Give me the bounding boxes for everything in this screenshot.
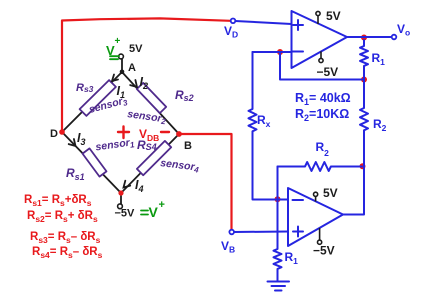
svg-text:+: + <box>159 199 165 211</box>
svg-text:Vo: Vo <box>397 22 410 38</box>
svg-text:I4: I4 <box>135 178 144 194</box>
svg-text:Rs4= Rs– δRs: Rs4= Rs– δRs <box>32 246 103 260</box>
svg-text:R1= 40kΩ: R1= 40kΩ <box>295 91 351 107</box>
svg-text:Rs2= Rs+ δRs: Rs2= Rs+ δRs <box>27 210 98 224</box>
svg-text:sensor4: sensor4 <box>160 157 201 175</box>
svg-text:V: V <box>149 204 159 220</box>
svg-text:A: A <box>128 62 136 74</box>
svg-text:D: D <box>50 128 58 140</box>
svg-text:−5V: −5V <box>313 244 335 258</box>
svg-text:VD: VD <box>224 24 238 40</box>
svg-text:B: B <box>184 140 192 152</box>
svg-text:Rs3: Rs3 <box>76 82 94 94</box>
svg-text:5V: 5V <box>326 9 341 23</box>
svg-text:−5V: −5V <box>317 65 339 79</box>
svg-text:I2: I2 <box>140 75 149 91</box>
svg-text:R1: R1 <box>285 250 299 266</box>
svg-text:R2: R2 <box>316 140 330 158</box>
svg-text:+: + <box>115 36 121 47</box>
svg-text:Rx: Rx <box>257 113 271 129</box>
svg-text:Rs1= Rs+δRs: Rs1= Rs+δRs <box>24 194 92 208</box>
svg-text:sensor1: sensor1 <box>95 136 136 154</box>
svg-text:5V: 5V <box>129 43 143 55</box>
svg-text:−5V: −5V <box>115 208 136 220</box>
svg-text:Rs1: Rs1 <box>66 166 85 182</box>
svg-text:R2: R2 <box>373 117 387 133</box>
svg-text:VDB: VDB <box>139 127 159 143</box>
svg-text:Rs3= Rs– δRs: Rs3= Rs– δRs <box>30 231 101 245</box>
svg-text:VB: VB <box>221 239 235 255</box>
svg-text:R2=10KΩ: R2=10KΩ <box>295 107 349 123</box>
svg-text:I3: I3 <box>77 131 86 147</box>
svg-text:R1: R1 <box>372 51 386 67</box>
svg-text:5V: 5V <box>323 186 338 200</box>
svg-text:Rs2: Rs2 <box>175 88 194 103</box>
